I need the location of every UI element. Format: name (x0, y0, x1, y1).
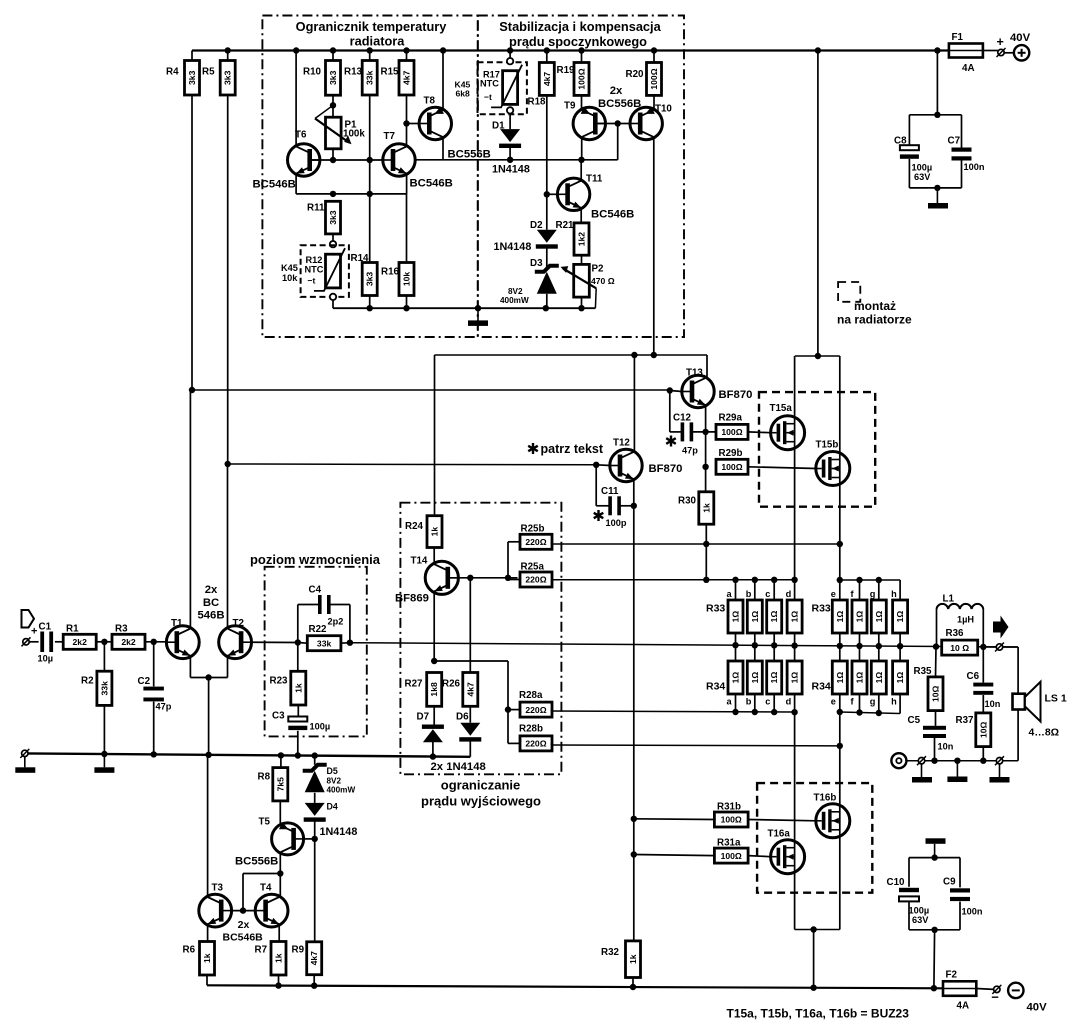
node +40V rail junction (507, 47, 513, 53)
wire R3 to T1 (145, 641, 167, 643)
svg-text:C9: C9 (943, 877, 956, 888)
label 1N4148 for D2 (494, 241, 532, 253)
diode D1 (492, 121, 521, 149)
node P1 top junction (330, 102, 336, 108)
svg-text:C10: C10 (887, 877, 906, 888)
capacitor C5 (908, 715, 954, 752)
wire C10 bottom lead (908, 901, 910, 929)
resistor R6 (183, 942, 215, 976)
svg-text:2x: 2x (238, 919, 250, 931)
svg-text:100Ω: 100Ω (721, 815, 742, 825)
wire R4 top (191, 51, 193, 61)
resistor R32 (601, 941, 641, 978)
svg-text:T15a: T15a (770, 403, 793, 414)
node R22 right junction (347, 640, 353, 646)
node R33 bottom junction (876, 643, 882, 649)
svg-text:T10: T10 (655, 104, 672, 115)
wire R19 to T9 emitter (581, 95, 583, 110)
wire R34 bottom lead (899, 694, 901, 714)
wire R34 top lead (859, 646, 861, 661)
ground C9/C10 top (926, 838, 946, 857)
wire R29a to T15a gate (748, 431, 771, 434)
terminal 0V tick right (995, 756, 1004, 765)
svg-text:1N4148: 1N4148 (492, 164, 530, 176)
wire T14 emitter down (433, 592, 435, 662)
svg-text:1Ω: 1Ω (769, 611, 779, 623)
diode D2 (530, 220, 558, 249)
svg-text:R37: R37 (956, 715, 975, 726)
svg-text:g: g (870, 697, 876, 707)
svg-text:C2: C2 (138, 676, 151, 687)
terminal -40V tick (992, 985, 1001, 994)
node +40V rail junction (544, 47, 550, 53)
wire L1 right lead (982, 609, 984, 647)
label 2x 1N4148 (431, 761, 486, 773)
wire C8 top lead (908, 115, 910, 146)
wire R31a to T16a gate (748, 856, 771, 857)
label T10 designator none (0, 0, 1, 1)
svg-text:10k: 10k (402, 272, 412, 287)
wire C2 bottom lead (153, 702, 155, 755)
wire cap bus bottom (909, 187, 961, 189)
wire T7 emitter to R16 (406, 194, 408, 263)
resistor R24 (405, 516, 442, 548)
node R37 0V junction (980, 758, 986, 764)
resistor R16 (381, 263, 414, 296)
svg-text:3k3: 3k3 (187, 70, 197, 85)
diode D6 down (456, 712, 481, 742)
svg-text:D5: D5 (327, 766, 338, 776)
node C9/C10 top junction (931, 854, 937, 860)
label poziom wzmocnienia (250, 552, 381, 567)
wire C6 to R37 (982, 695, 984, 713)
wire T8 collector down (442, 137, 444, 160)
capacitor C11 (594, 486, 627, 528)
node +40V rail junction (367, 47, 373, 53)
svg-text:4A: 4A (957, 1001, 970, 1012)
svg-text:R24: R24 (405, 521, 424, 532)
svg-text:−t: −t (308, 276, 316, 286)
wire C8 bottom lead (908, 159, 910, 188)
wire P1 bottom (332, 149, 334, 160)
resistor R20 (626, 63, 662, 96)
wire R34 bottom lead (773, 694, 775, 711)
svg-text:10Ω: 10Ω (978, 721, 988, 738)
label - at terminal (991, 990, 999, 1005)
node R25a junction (505, 575, 511, 581)
svg-text:63V: 63V (914, 172, 931, 182)
wire L1 left lead (936, 609, 938, 647)
svg-text:R27: R27 (405, 679, 424, 690)
wire tick to circle (1004, 52, 1014, 54)
svg-text:T16b: T16b (814, 793, 837, 804)
svg-text:1Ω: 1Ω (790, 672, 800, 684)
svg-text:BC556B: BC556B (598, 98, 641, 110)
svg-text:R2: R2 (81, 676, 94, 687)
wire T15b drain-source vertical (839, 356, 841, 580)
wire R33 top lead (754, 580, 756, 600)
ground bias network (468, 308, 488, 326)
svg-text:a: a (727, 697, 733, 707)
node +40V rail junction (403, 47, 409, 53)
svg-text:R18: R18 (528, 97, 547, 108)
wire R34 bottom lead (839, 694, 841, 712)
svg-text:33k: 33k (365, 70, 375, 85)
transistor T16b MOSFET (814, 793, 850, 838)
svg-text:D1: D1 (492, 121, 505, 132)
wire R28 vertical (507, 661, 509, 743)
svg-text:1k: 1k (701, 503, 711, 513)
function box: Stabilizacja i kompensacja (478, 16, 684, 338)
node R33 top junction (856, 577, 862, 583)
svg-text:montaż: montaż (854, 299, 896, 313)
svg-text:poziom wzmocnienia: poziom wzmocnienia (250, 552, 381, 567)
resistor R34d (786, 661, 803, 707)
svg-text:1Ω: 1Ω (835, 672, 845, 684)
terminal circle above R17 (507, 58, 513, 64)
wire R13 bottom to R14 (369, 95, 371, 263)
wire R19 top (581, 51, 583, 63)
wire T15a drain-source vertical (794, 356, 796, 580)
svg-text:C4: C4 (309, 585, 322, 596)
svg-text:1k: 1k (430, 527, 440, 537)
wire T5 collector to T4 (279, 874, 281, 898)
svg-text:1N4148: 1N4148 (494, 241, 532, 253)
svg-text:BC556B: BC556B (235, 856, 278, 868)
transistor T1 (166, 618, 199, 659)
node +40V rail junction (330, 47, 336, 53)
label R14 (351, 253, 370, 264)
svg-text:c: c (765, 589, 770, 599)
node output R35 junction (933, 643, 939, 649)
wire F1 to terminal (983, 50, 998, 52)
wire R2 bottom lead (103, 705, 105, 754)
node C12/R29a junction (702, 429, 708, 435)
resistor R7 (255, 942, 287, 976)
node R28a junction (505, 706, 511, 712)
svg-text:Stabilizacja i kompensacja: Stabilizacja i kompensacja (499, 19, 661, 34)
resistor R30 (678, 492, 714, 524)
svg-text:R6: R6 (183, 945, 196, 956)
wire C6 top lead (982, 647, 984, 683)
node R31a junction (631, 851, 637, 857)
wire R8 to T5 emitter (279, 801, 281, 826)
capacitor C4 (309, 585, 344, 627)
svg-text:4k7: 4k7 (309, 951, 319, 966)
label BC546B for T6 (253, 179, 296, 191)
resistor R18 (528, 63, 555, 108)
node T11 base junction (544, 191, 550, 197)
svg-text:L1: L1 (943, 594, 955, 605)
wire R29b to T15b gate (748, 467, 816, 469)
wire C12 branch vertical (669, 391, 671, 432)
svg-text:100p: 100p (606, 518, 627, 528)
resistor R1 (63, 624, 96, 650)
resistor R25b (520, 524, 552, 550)
label R33 right (812, 603, 831, 615)
svg-text:4…8Ω: 4…8Ω (1029, 727, 1060, 739)
svg-text:R3: R3 (115, 624, 128, 635)
svg-text:33k: 33k (99, 681, 109, 696)
MOSFET box T16 (757, 783, 872, 893)
label BC546B for T11 (591, 209, 634, 221)
wire T16b drain-source vertical (839, 712, 841, 930)
wire T1 emitter down (189, 656, 191, 678)
label 100n for C7 (964, 162, 985, 172)
wire R34 top lead (754, 645, 756, 661)
wire R21 to P2 (581, 255, 583, 264)
svg-text:100Ω: 100Ω (721, 462, 742, 472)
capacitor C9 (943, 877, 970, 902)
resistor R33h (891, 589, 908, 633)
wire R17 top lead (509, 51, 511, 59)
label ograniczanie pradu wyjsciowego (421, 778, 541, 809)
label 8V2 400mW for D3 (500, 287, 529, 305)
svg-text:2k2: 2k2 (121, 637, 136, 647)
svg-text:T14: T14 (411, 556, 428, 567)
wire R33 top lead (735, 580, 737, 600)
wire R16 bottom (406, 296, 408, 309)
capacitor C10 (887, 877, 920, 901)
wire C4 right loop (330, 605, 350, 643)
svg-text:1k2: 1k2 (577, 232, 587, 247)
label K45 6k8 (455, 80, 471, 99)
svg-text:BC: BC (203, 597, 219, 609)
resistor R31a (714, 838, 748, 864)
node 0V bus junction (278, 752, 284, 758)
node -40V rail junction (931, 985, 937, 991)
svg-text:R34: R34 (706, 681, 725, 693)
wire T2 emitter down (227, 656, 229, 678)
node 0V bus junction (312, 752, 318, 758)
svg-text:F1: F1 (952, 32, 964, 43)
node R33 top junction (752, 577, 758, 583)
fuse F2 (943, 970, 976, 1012)
node R33 bottom junction (791, 642, 797, 648)
wire T10 collector down to bus (653, 137, 655, 355)
wire base link vertical (242, 874, 244, 911)
power circle -40V (1008, 983, 1023, 998)
wire D3 to bias rail (546, 294, 548, 308)
zener diode D5 (303, 765, 338, 793)
wire R28a left lead (508, 709, 520, 711)
wire R33 bottom lead (859, 633, 861, 646)
wire T12 emitter down long (633, 479, 635, 941)
label patrz tekst (528, 442, 604, 456)
transistor T5 (259, 817, 304, 855)
wire D5 top lead (314, 756, 316, 765)
wire emitters to 0V bus (208, 678, 210, 755)
capacitor C1 (38, 622, 54, 664)
resistor R15 (381, 61, 415, 96)
wire D1 to collector line (509, 148, 511, 160)
svg-text:g: g (870, 589, 876, 599)
svg-text:R15: R15 (381, 67, 400, 78)
svg-text:3k3: 3k3 (328, 70, 338, 85)
wire T16 sources to -40V (813, 930, 815, 988)
svg-text:2p2: 2p2 (328, 617, 344, 627)
svg-text:T7: T7 (384, 131, 396, 142)
label 100n for C9 (962, 907, 983, 917)
svg-text:4A: 4A (962, 63, 975, 74)
wire T11 base (547, 193, 558, 195)
resistor R22 (307, 624, 341, 651)
node emitter join (205, 674, 211, 680)
function box poziom wzmocnienia (265, 567, 367, 737)
svg-text:T5: T5 (259, 817, 271, 828)
node R22 left junction (295, 639, 301, 645)
svg-text:a: a (727, 589, 733, 599)
svg-text:100k: 100k (343, 129, 365, 140)
wire bus A to T12 collector (633, 355, 635, 452)
resistor R33a (727, 589, 744, 633)
label R34 left (706, 681, 725, 693)
svg-text:10k: 10k (282, 273, 298, 283)
wire D6 to 0V bus (469, 741, 471, 757)
svg-text:T16a: T16a (768, 829, 791, 840)
svg-text:8V2: 8V2 (327, 777, 342, 786)
wire -40V rail (207, 985, 943, 988)
node T8 base junction (403, 120, 409, 126)
resistor R33f (851, 589, 868, 633)
label BUZ23 note (727, 1007, 910, 1021)
wire T12 base lead (596, 464, 610, 467)
wire R33 top lead (859, 580, 861, 600)
svg-text:1Ω: 1Ω (750, 611, 760, 623)
svg-text:D7: D7 (417, 712, 430, 723)
wire terminal to corner (1003, 646, 1018, 648)
node T14 emitter R27 junction (431, 658, 437, 664)
wire R17 to D1 (509, 114, 511, 130)
svg-text:prądu wyjściowego: prądu wyjściowego (421, 794, 541, 809)
output arrow symbol (993, 616, 1009, 639)
svg-text:2x: 2x (205, 584, 218, 596)
wire C11 branch vertical (595, 465, 597, 506)
node T14 base R26 junction (467, 575, 473, 581)
node C12 branch junction (667, 387, 673, 393)
svg-text:33k: 33k (317, 638, 332, 648)
label BC556B for T8 (448, 149, 491, 161)
resistor R25a (520, 562, 552, 588)
resistor R4 (166, 61, 200, 96)
svg-text:C3: C3 (272, 711, 285, 722)
wire R34 top lead (794, 646, 796, 661)
node -40V rail junction (275, 982, 281, 988)
svg-text:R23: R23 (270, 676, 289, 687)
node +40V rail junction (815, 47, 821, 53)
svg-text:1Ω: 1Ω (895, 672, 905, 684)
svg-text:e: e (831, 589, 836, 599)
wire C1 to R1 (55, 641, 63, 643)
svg-text:na radiatorze: na radiatorze (837, 313, 912, 327)
node 0V bus junction (430, 753, 436, 759)
svg-text:C7: C7 (948, 136, 961, 147)
resistor R33b (746, 589, 763, 633)
node R34 bottom junction (876, 710, 882, 716)
svg-text:220Ω: 220Ω (525, 739, 546, 749)
node T5 collector junction (277, 870, 283, 876)
label BF869 for T14 (395, 593, 429, 605)
svg-text:b: b (746, 589, 752, 599)
svg-text:P2: P2 (592, 264, 605, 275)
inductor L1 (937, 594, 984, 625)
svg-text:Ogranicznik temperatury: Ogranicznik temperatury (296, 19, 448, 34)
svg-text:D6: D6 (456, 712, 469, 723)
wire R33 bottom lead (839, 633, 841, 646)
label BC556B for T5 (235, 856, 278, 868)
wire C5 bottom lead (934, 738, 936, 761)
wire emitter bus to R28 vertical (434, 660, 508, 662)
wire emitter line T6-T7 (296, 193, 406, 195)
svg-text:1Ω: 1Ω (750, 672, 760, 684)
svg-text:T15b: T15b (816, 440, 839, 451)
wire feedback line (350, 643, 1018, 647)
fuse F1 (949, 32, 983, 74)
wire bus A (435, 354, 708, 356)
terminal circle above R12 (330, 241, 336, 247)
wire D5 to D4 (314, 793, 316, 803)
resistor R34b (746, 661, 763, 707)
wire R6 bottom (206, 975, 208, 985)
svg-text:C12: C12 (673, 413, 692, 424)
wire C10 top lead (908, 858, 910, 887)
svg-text:10Ω: 10Ω (931, 685, 941, 702)
resistor R27 (405, 673, 442, 707)
node R33 bottom junction (856, 643, 862, 649)
label K45 10k (281, 263, 298, 283)
wire R25 vertical (507, 542, 509, 578)
node bus R30 junction (703, 577, 709, 583)
label LS 1 (1045, 693, 1067, 705)
label + at input (31, 626, 37, 638)
node P1 bottom on base line (330, 157, 336, 163)
wire T13 emitter down (705, 405, 707, 432)
svg-text:LS 1: LS 1 (1045, 693, 1067, 705)
wire collector line T8 row (415, 159, 618, 161)
wire C4 left loop (298, 605, 319, 643)
svg-text:R9: R9 (292, 945, 305, 956)
label 40V bottom (1027, 1002, 1048, 1014)
svg-text:1Ω: 1Ω (855, 672, 865, 684)
node T9/T11 collector junction (578, 157, 584, 163)
wire C9/C10 top bus (909, 857, 960, 859)
resistor R34a (727, 661, 744, 707)
resistor R28a (519, 690, 552, 717)
resistor R11 (307, 201, 341, 234)
svg-text:C11: C11 (601, 486, 619, 497)
wire LS1 to 0V corner (1017, 710, 1019, 761)
svg-text:R20: R20 (626, 69, 645, 80)
svg-text:4k7: 4k7 (542, 72, 552, 87)
svg-text:R11: R11 (307, 203, 325, 214)
wire T7 emitter down (406, 174, 408, 194)
wire R30 top lead (705, 467, 707, 492)
node bias bottom rail junction (578, 305, 584, 311)
node R34 bottom junction (856, 709, 862, 715)
resistor R36 (942, 628, 978, 655)
svg-text:100Ω: 100Ω (649, 68, 659, 89)
svg-text:40V: 40V (1010, 32, 1031, 44)
svg-text:1Ω: 1Ω (790, 611, 800, 623)
thermistor R17 NTC (480, 65, 522, 108)
wire R10 to P1 (332, 95, 334, 117)
svg-text:R33: R33 (812, 603, 831, 615)
node 0V bus junction (101, 751, 107, 757)
label 1N4148 for D4 (320, 826, 358, 838)
svg-text:R30: R30 (678, 496, 697, 507)
resistor R33c (765, 589, 782, 633)
node R13/R14 junction on base line (367, 157, 373, 163)
